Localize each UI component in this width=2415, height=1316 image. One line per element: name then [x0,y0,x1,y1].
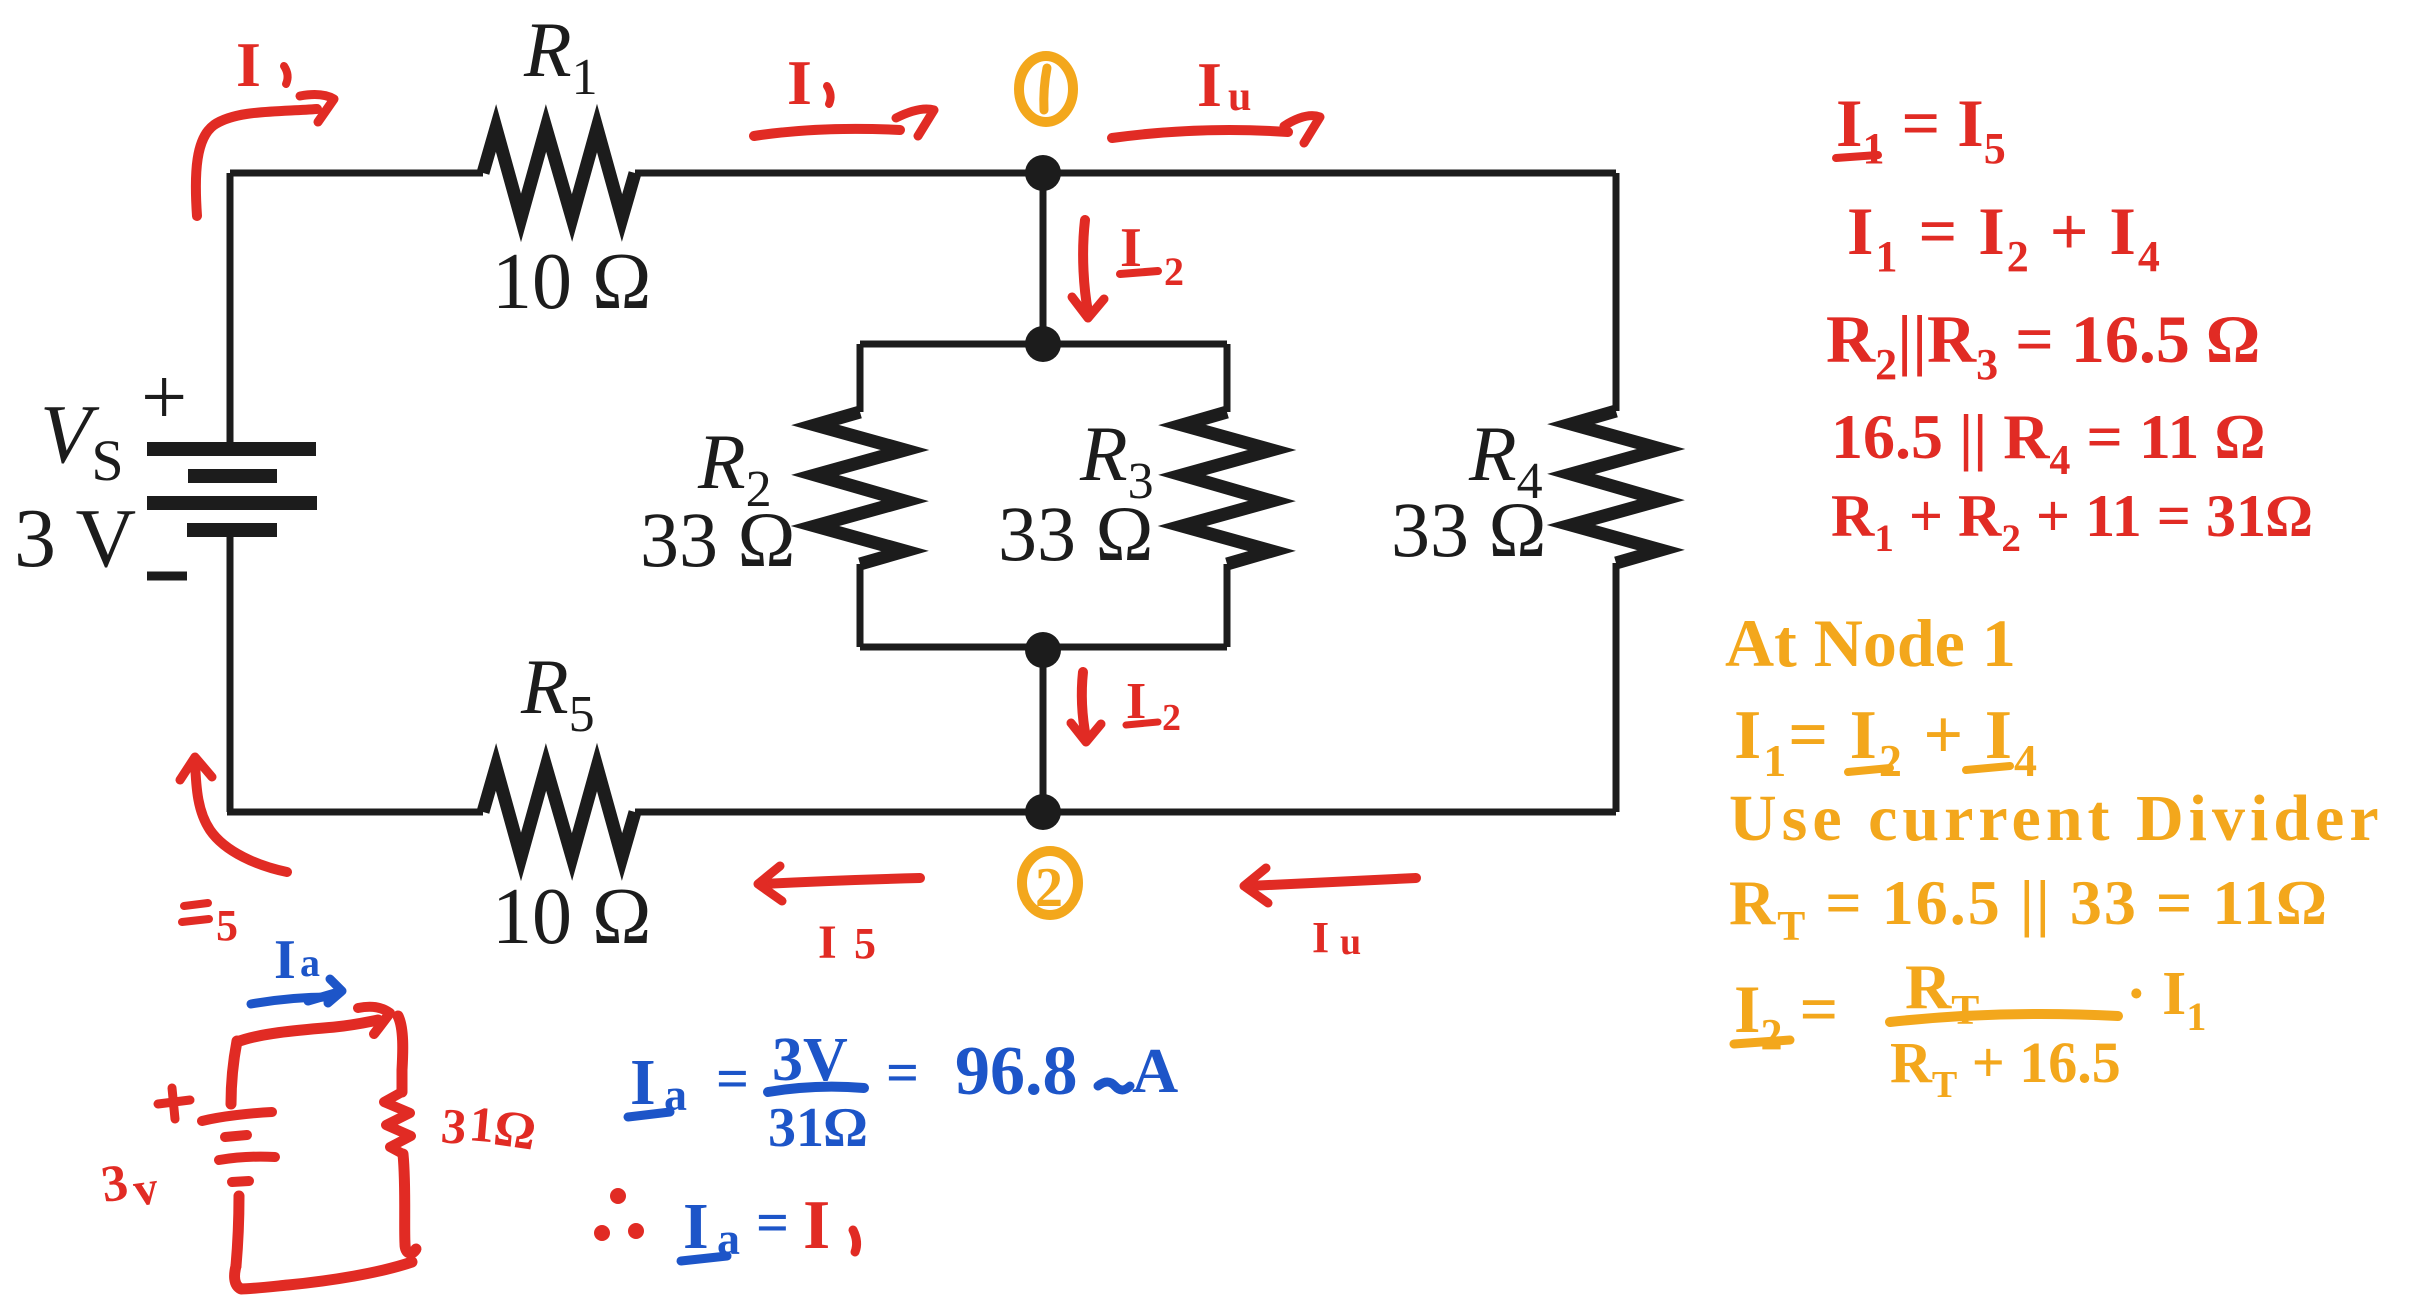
svg-text:I: I [683,1190,709,1263]
svg-text:I: I [274,929,296,991]
svg-text:3 V: 3 V [14,492,136,585]
svg-text:I: I [1312,913,1329,962]
svg-text:RT​ + 16.5: RT​ + 16.5 [1890,1030,2121,1106]
svg-text:2: 2 [1035,857,1063,919]
svg-text:5: 5 [854,919,876,968]
svg-text:=: = [886,1040,919,1105]
svg-text:16.5 || R4​ = 11 Ω: 16.5 || R4​ = 11 Ω [1831,401,2265,484]
svg-text:a: a [300,940,320,985]
svg-text:2: 2 [1164,249,1184,294]
svg-text:3: 3 [439,1097,469,1155]
svg-text:=: = [716,1046,749,1111]
svg-text:33 Ω: 33 Ω [640,496,795,583]
svg-text:I: I [803,1187,830,1264]
svg-text:33 Ω: 33 Ω [1391,486,1546,573]
svg-text:Use current Divider: Use current Divider [1729,782,2384,855]
svg-text:10 Ω: 10 Ω [492,238,651,326]
svg-text:31Ω: 31Ω [768,1097,867,1159]
svg-text:At Node 1: At Node 1 [1725,605,2016,681]
svg-text:96.8: 96.8 [955,1033,1078,1110]
svg-text:u: u [1340,921,1361,963]
svg-text:I: I [236,29,261,100]
svg-text:R1​ + R2​ + 11 = 31Ω: R1​ + R2​ + 11 = 31Ω [1831,483,2312,560]
svg-text:=: = [756,1190,789,1255]
svg-text:5: 5 [216,901,238,950]
svg-text:I: I [1197,49,1222,120]
svg-text:u: u [1228,74,1251,120]
svg-text:A: A [1132,1035,1178,1106]
svg-text:+: + [141,351,187,442]
svg-text:Ω: Ω [490,1099,539,1161]
svg-text:RT​ = 16.5 || 33 = 11Ω: RT​ = 16.5 || 33 = 11Ω [1729,867,2328,950]
svg-text:I: I [630,1046,656,1119]
svg-text:33 Ω: 33 Ω [998,490,1153,577]
svg-text:2: 2 [1162,697,1181,739]
svg-text:10 Ω: 10 Ω [492,873,651,961]
svg-text:I: I [818,916,837,969]
svg-text:I: I [787,47,812,118]
